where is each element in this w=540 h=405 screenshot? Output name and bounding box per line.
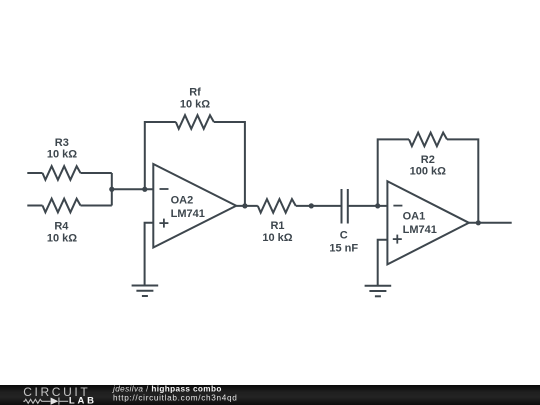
svg-text:LM741: LM741 — [403, 224, 437, 236]
svg-text:jdesilva / highpass combo: jdesilva / highpass combo — [112, 384, 222, 393]
svg-text:R1: R1 — [270, 220, 284, 232]
svg-text:100 kΩ: 100 kΩ — [410, 165, 447, 177]
svg-text:R2: R2 — [421, 154, 435, 166]
svg-text:OA2: OA2 — [171, 195, 194, 207]
svg-text:10 kΩ: 10 kΩ — [180, 99, 210, 111]
svg-text:R3: R3 — [55, 137, 69, 149]
svg-text:OA1: OA1 — [403, 211, 426, 223]
svg-text:C: C — [340, 230, 348, 242]
svg-text:10 kΩ: 10 kΩ — [47, 233, 77, 245]
svg-text:Rf: Rf — [189, 87, 201, 99]
svg-text:15 nF: 15 nF — [329, 242, 358, 254]
svg-text:R4: R4 — [54, 220, 69, 232]
svg-text:10 kΩ: 10 kΩ — [262, 232, 292, 244]
svg-text:LAB: LAB — [69, 396, 97, 405]
svg-text:LM741: LM741 — [171, 208, 205, 220]
svg-text:http://circuitlab.com/ch3n4qd: http://circuitlab.com/ch3n4qd — [113, 393, 238, 402]
svg-text:10 kΩ: 10 kΩ — [47, 149, 77, 161]
